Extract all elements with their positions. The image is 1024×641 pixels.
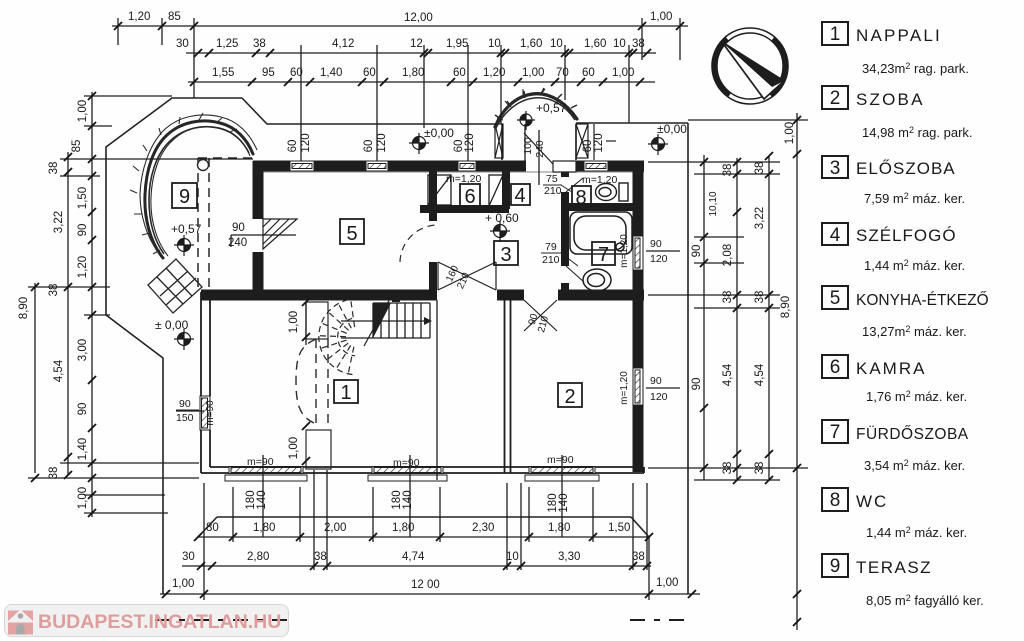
svg-text:4,54: 4,54 <box>754 363 766 386</box>
svg-text:85: 85 <box>71 140 83 153</box>
svg-text:12: 12 <box>410 38 423 50</box>
svg-text:4: 4 <box>514 185 525 207</box>
svg-text:38: 38 <box>314 551 327 563</box>
svg-text:210: 210 <box>542 254 560 266</box>
svg-text:1,50: 1,50 <box>608 522 630 534</box>
svg-text:m=90: m=90 <box>393 457 420 469</box>
svg-text:3,22: 3,22 <box>53 211 65 233</box>
svg-text:1,95: 1,95 <box>446 38 468 50</box>
svg-text:2,00: 2,00 <box>324 522 346 534</box>
svg-text:8,90: 8,90 <box>780 296 792 318</box>
svg-text:SZOBA: SZOBA <box>856 90 925 109</box>
svg-text:TERASZ: TERASZ <box>856 558 932 577</box>
svg-text:7,59 m2 máz. ker.: 7,59 m2 máz. ker. <box>864 191 965 206</box>
svg-text:100: 100 <box>522 137 534 155</box>
svg-text:1,40: 1,40 <box>77 438 89 460</box>
svg-text:±0,00: ±0,00 <box>424 126 454 140</box>
svg-text:10: 10 <box>506 551 519 563</box>
svg-text:90: 90 <box>232 222 245 234</box>
svg-text:3,30: 3,30 <box>558 551 580 563</box>
svg-text:14,98 m2 rag. park.: 14,98 m2 rag. park. <box>862 125 973 140</box>
svg-text:38: 38 <box>754 162 766 175</box>
svg-text:±0,00: ±0,00 <box>657 122 687 136</box>
svg-text:1,60: 1,60 <box>584 38 606 50</box>
svg-text:90: 90 <box>650 375 662 387</box>
svg-text:1,80: 1,80 <box>392 522 414 534</box>
svg-text:2,30: 2,30 <box>472 522 494 534</box>
svg-text:8: 8 <box>830 490 841 511</box>
svg-text:120: 120 <box>376 133 388 152</box>
svg-text:1,76 m2 máz. ker.: 1,76 m2 máz. ker. <box>866 389 967 404</box>
svg-text:1,20: 1,20 <box>128 11 150 23</box>
svg-text:4,74: 4,74 <box>402 551 425 563</box>
svg-text:2,80: 2,80 <box>247 551 269 563</box>
svg-text:+0,57: +0,57 <box>171 222 202 236</box>
svg-text:34,23m2 rag. park.: 34,23m2 rag. park. <box>862 61 969 76</box>
svg-text:1,60: 1,60 <box>520 38 542 50</box>
svg-text:3,22: 3,22 <box>754 207 766 229</box>
svg-text:60: 60 <box>290 67 303 79</box>
svg-text:95: 95 <box>262 67 275 79</box>
svg-text:1,00: 1,00 <box>288 437 300 459</box>
svg-text:38: 38 <box>722 291 734 304</box>
svg-text:1,00: 1,00 <box>656 577 678 589</box>
svg-text:210: 210 <box>544 185 562 197</box>
svg-text:120: 120 <box>464 133 476 152</box>
svg-text:60: 60 <box>453 67 466 79</box>
svg-text:10: 10 <box>550 38 563 50</box>
svg-text:38: 38 <box>754 291 766 304</box>
svg-text:6: 6 <box>830 357 841 378</box>
svg-text:1,44 m2 máz. ker.: 1,44 m2 máz. ker. <box>866 525 967 540</box>
svg-text:1,00: 1,00 <box>650 11 672 23</box>
svg-text:12,00: 12,00 <box>404 12 433 24</box>
svg-text:240: 240 <box>534 140 546 158</box>
svg-text:90: 90 <box>77 403 89 416</box>
svg-text:90: 90 <box>650 238 662 250</box>
svg-text:90: 90 <box>691 245 703 258</box>
svg-text:10: 10 <box>613 38 626 50</box>
svg-text:38: 38 <box>48 162 60 175</box>
svg-text:1: 1 <box>340 382 351 404</box>
svg-text:1,44 m2 máz. ker.: 1,44 m2 máz. ker. <box>864 258 965 273</box>
svg-text:2: 2 <box>830 88 841 109</box>
svg-text:38: 38 <box>48 284 60 297</box>
svg-text:6: 6 <box>464 186 475 208</box>
svg-text:1: 1 <box>830 24 841 45</box>
svg-text:+ 0,60: + 0,60 <box>485 211 519 225</box>
svg-text:1,00: 1,00 <box>172 578 194 590</box>
svg-text:2,08: 2,08 <box>722 244 734 266</box>
svg-text:5: 5 <box>346 223 357 245</box>
svg-text:30: 30 <box>182 551 195 563</box>
svg-text:FÜRDŐSZOBA: FÜRDŐSZOBA <box>856 425 969 443</box>
svg-text:1,55: 1,55 <box>212 67 234 79</box>
svg-text:1,80: 1,80 <box>402 67 424 79</box>
svg-text:120: 120 <box>650 253 668 265</box>
svg-text:12 00: 12 00 <box>411 579 440 591</box>
svg-text:8: 8 <box>575 187 586 209</box>
svg-text:m=1,20: m=1,20 <box>619 234 630 268</box>
svg-text:m=1,20: m=1,20 <box>446 173 481 185</box>
svg-text:m=90: m=90 <box>547 454 574 466</box>
svg-text:120: 120 <box>650 391 668 403</box>
svg-text:90: 90 <box>179 398 191 410</box>
svg-text:140: 140 <box>558 493 570 512</box>
svg-text:38: 38 <box>48 467 60 480</box>
svg-text:85: 85 <box>168 11 181 23</box>
svg-text:m=1,20: m=1,20 <box>619 371 630 405</box>
svg-text:3,00: 3,00 <box>77 339 89 361</box>
svg-text:240: 240 <box>228 237 247 249</box>
svg-text:KONYHA-ÉTKEZŐ: KONYHA-ÉTKEZŐ <box>856 292 989 309</box>
svg-text:1,00: 1,00 <box>288 311 300 333</box>
svg-text:1,80: 1,80 <box>548 522 570 534</box>
svg-text:1,20: 1,20 <box>77 256 89 278</box>
svg-text:38: 38 <box>253 38 266 50</box>
svg-text:5: 5 <box>830 288 841 309</box>
svg-text:ELŐSZOBA: ELŐSZOBA <box>856 159 956 178</box>
svg-text:1,00: 1,00 <box>522 67 544 79</box>
svg-text:80: 80 <box>206 522 219 534</box>
svg-text:1,40: 1,40 <box>320 67 342 79</box>
svg-text:150: 150 <box>176 412 194 424</box>
svg-text:90: 90 <box>77 224 89 237</box>
svg-text:SZÉLFOGÓ: SZÉLFOGÓ <box>856 226 957 245</box>
svg-text:60: 60 <box>363 67 376 79</box>
svg-text:140: 140 <box>256 490 268 509</box>
svg-text:1,00: 1,00 <box>612 67 634 79</box>
svg-text:9: 9 <box>830 556 841 577</box>
svg-text:+0,57: +0,57 <box>536 101 567 115</box>
svg-text:79: 79 <box>545 241 557 253</box>
svg-text:± 0,00: ± 0,00 <box>155 318 189 332</box>
svg-text:1,00: 1,00 <box>77 100 89 122</box>
svg-text:38: 38 <box>722 462 734 475</box>
svg-text:3: 3 <box>500 244 511 266</box>
svg-text:1,50: 1,50 <box>77 187 89 209</box>
svg-text:m=90: m=90 <box>247 456 274 468</box>
svg-text:38: 38 <box>632 551 645 563</box>
svg-text:60: 60 <box>287 140 299 153</box>
svg-text:1,00: 1,00 <box>77 487 89 509</box>
svg-text:3,54 m2 máz. ker.: 3,54 m2 máz. ker. <box>864 458 965 473</box>
svg-text:4,54: 4,54 <box>53 359 65 382</box>
svg-text:4: 4 <box>830 225 841 246</box>
svg-text:60: 60 <box>582 67 595 79</box>
svg-text:13,27m2 máz. ker.: 13,27m2 máz. ker. <box>862 324 967 339</box>
svg-text:7: 7 <box>598 244 609 266</box>
svg-text:8,90: 8,90 <box>18 297 30 319</box>
svg-text:10: 10 <box>488 38 501 50</box>
svg-text:60: 60 <box>363 140 375 153</box>
svg-text:m=1,20: m=1,20 <box>582 174 617 186</box>
svg-text:10,10: 10,10 <box>708 191 719 216</box>
svg-text:1,80: 1,80 <box>253 522 275 534</box>
svg-text:NAPPALI: NAPPALI <box>856 26 942 45</box>
svg-text:4,12: 4,12 <box>332 38 354 50</box>
svg-text:38: 38 <box>722 164 734 177</box>
svg-text:75: 75 <box>546 173 558 185</box>
svg-text:m=90: m=90 <box>205 400 216 426</box>
svg-text:38: 38 <box>754 462 766 475</box>
svg-text:9: 9 <box>179 186 190 208</box>
svg-text:140: 140 <box>402 490 414 509</box>
svg-text:1,00: 1,00 <box>784 122 796 144</box>
svg-text:30: 30 <box>176 38 189 50</box>
svg-text:70: 70 <box>556 67 569 79</box>
svg-text:2: 2 <box>564 386 575 408</box>
svg-text:38: 38 <box>632 38 645 50</box>
svg-text:1,20: 1,20 <box>483 67 505 79</box>
svg-text:7: 7 <box>830 422 841 443</box>
svg-text:3: 3 <box>830 158 841 179</box>
svg-text:8,05 m2 fagyálló ker.: 8,05 m2 fagyálló ker. <box>866 593 984 608</box>
svg-text:KAMRA: KAMRA <box>856 359 926 378</box>
svg-text:1,25: 1,25 <box>216 38 238 50</box>
svg-text:120: 120 <box>300 133 312 152</box>
svg-text:WC: WC <box>856 492 888 511</box>
svg-text:4,54: 4,54 <box>722 363 734 386</box>
svg-text:90: 90 <box>691 378 703 391</box>
svg-text:120: 120 <box>593 133 605 152</box>
